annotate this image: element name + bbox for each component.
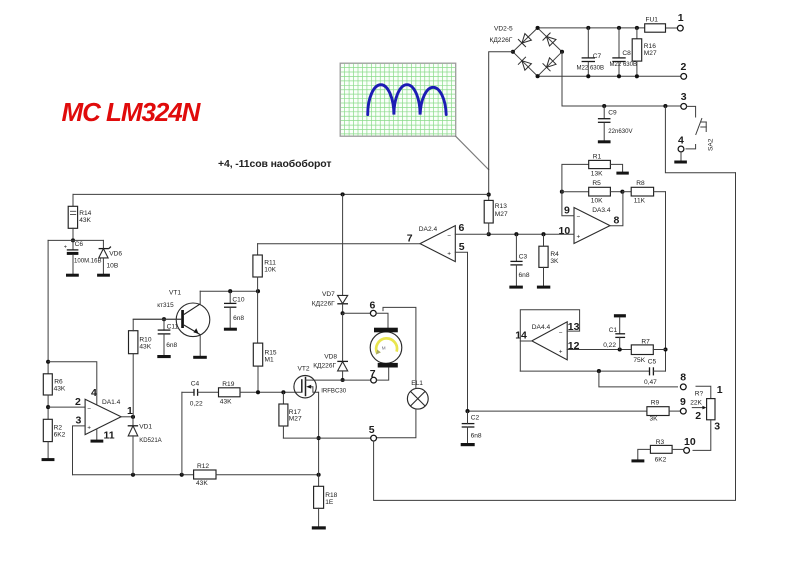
resistor R19 (219, 388, 241, 397)
zener diode VD6 (102, 240, 104, 248)
svg-text:3K: 3K (650, 416, 659, 423)
svg-text:КД226Г: КД226Г (490, 37, 513, 44)
wire pin 10 input rail (489, 233, 574, 235)
wire SA2 node to right side loop (665, 106, 735, 173)
capacitor C6 electrolytic (72, 240, 74, 250)
resistor R13 (488, 195, 490, 201)
ground at terminal 4 (680, 152, 682, 161)
svg-text:R18: R18 (325, 492, 337, 499)
resistor R4 (539, 246, 548, 267)
capacitor C3 (515, 234, 517, 261)
svg-text:M1: M1 (265, 356, 274, 363)
svg-text:6: 6 (459, 222, 465, 234)
svg-text:0,22: 0,22 (603, 342, 616, 349)
terminal 8 (680, 384, 686, 390)
terminal 2 (681, 74, 687, 80)
svg-text:43K: 43K (196, 480, 208, 487)
wire R8 to R7 column (665, 192, 667, 350)
svg-text:1: 1 (717, 384, 723, 396)
junction (663, 347, 667, 351)
svg-text:0,47: 0,47 (644, 379, 657, 386)
svg-text:R1: R1 (593, 153, 602, 160)
capacitor C10 (229, 291, 231, 303)
svg-text:EL1: EL1 (411, 380, 423, 387)
resistor R6 (43, 374, 52, 395)
svg-text:10K: 10K (264, 266, 276, 273)
svg-text:C1: C1 (609, 327, 618, 334)
terminal 10 (684, 448, 690, 454)
wire motor bottom to terminal 7 (377, 368, 389, 380)
resistor R17 (282, 392, 284, 404)
wire to terminal 5 (283, 437, 370, 439)
wire pin 8 feedback (610, 192, 623, 226)
resistor R12 (194, 470, 216, 479)
svg-text:R19: R19 (222, 381, 234, 388)
wire top AC rail (538, 27, 645, 29)
motor M (370, 328, 402, 368)
svg-text:4: 4 (678, 135, 684, 147)
wire pin 5 (455, 252, 467, 411)
svg-text:R10: R10 (139, 337, 151, 344)
svg-text:R11: R11 (264, 259, 276, 266)
svg-text:+: + (577, 234, 581, 241)
transistor VT2 mosfet (294, 366, 347, 398)
svg-text:10: 10 (559, 225, 571, 237)
junction (602, 104, 606, 108)
wire pin 9 (562, 192, 574, 216)
wire collector (199, 291, 201, 304)
svg-text:DA1.4: DA1.4 (102, 399, 121, 406)
svg-text:M22 630B: M22 630B (577, 65, 605, 71)
svg-text:3: 3 (714, 420, 720, 432)
svg-text:11K: 11K (634, 197, 646, 204)
svg-text:VT1: VT1 (169, 290, 181, 297)
svg-text:11: 11 (104, 430, 115, 442)
wire VD8 column (342, 313, 344, 361)
svg-text:22K: 22K (690, 399, 702, 406)
wire collector rail (200, 290, 258, 292)
svg-text:C3: C3 (519, 254, 528, 261)
svg-text:0,22: 0,22 (190, 400, 203, 407)
svg-text:VD8: VD8 (324, 353, 337, 360)
svg-text:VD7: VD7 (322, 291, 335, 298)
svg-text:MC LM324N: MC LM324N (62, 97, 202, 127)
resistor R8 (622, 191, 631, 193)
svg-text:R16: R16 (644, 43, 656, 50)
svg-text:10: 10 (684, 436, 696, 448)
svg-text:75K: 75K (633, 357, 645, 364)
svg-text:кт315: кт315 (157, 302, 174, 309)
svg-text:M27: M27 (644, 50, 657, 57)
resistor R15 (253, 343, 262, 366)
ground pin 11 (96, 429, 98, 440)
svg-text:13K: 13K (591, 170, 603, 177)
svg-text:+: + (87, 425, 91, 432)
wire bridge right down (562, 52, 681, 106)
capacitor C2 (462, 423, 475, 425)
svg-text:5: 5 (459, 241, 465, 253)
capacitor C8 (618, 28, 620, 57)
junction (620, 190, 624, 194)
svg-text:−: − (87, 406, 91, 413)
svg-text:R4: R4 (550, 251, 559, 258)
svg-text:2: 2 (681, 61, 687, 73)
svg-text:R?: R? (695, 390, 704, 397)
resistor R10 (129, 331, 138, 354)
terminal 5 (371, 435, 377, 441)
junction (341, 311, 345, 315)
svg-text:1: 1 (678, 12, 684, 24)
transistor VT1 (157, 290, 210, 337)
svg-text:6n8: 6n8 (233, 315, 244, 322)
wire R14 node (48, 239, 103, 241)
svg-text:C6: C6 (75, 241, 84, 248)
terminal 3 (681, 104, 687, 110)
svg-text:KD521A: KD521A (139, 438, 162, 444)
resistor R9 (647, 407, 669, 416)
svg-text:6K2: 6K2 (655, 456, 667, 463)
wire pin 6 (455, 233, 488, 235)
terminal 1 (677, 25, 683, 31)
terminal 4 (678, 146, 684, 152)
svg-text:R12: R12 (197, 463, 209, 470)
capacitor C7 (587, 28, 589, 57)
svg-text:−: − (447, 232, 451, 239)
svg-text:5: 5 (369, 424, 375, 436)
capacitor C1 (614, 314, 626, 317)
svg-text:КД226Г: КД226Г (313, 362, 336, 369)
svg-text:2: 2 (695, 410, 701, 422)
capacitor C9 (603, 106, 605, 118)
svg-text:M27: M27 (289, 416, 302, 423)
svg-text:R13: R13 (495, 203, 507, 210)
capacitor C11 (163, 319, 165, 330)
svg-text:R5: R5 (592, 180, 601, 187)
wire C2 node rail (468, 410, 647, 412)
svg-text:FU1: FU1 (646, 17, 659, 24)
wire pin 13 feedback loop (520, 310, 579, 371)
svg-text:100M.16B: 100M.16B (74, 259, 102, 265)
svg-text:DA3.4: DA3.4 (592, 207, 611, 214)
svg-text:9: 9 (680, 396, 686, 408)
bridge rectifier VD2-5 (490, 26, 565, 79)
svg-text:14: 14 (515, 330, 527, 342)
wire lower AC rail (538, 75, 681, 77)
fuse FU1 (645, 27, 678, 29)
pointer line from image (456, 136, 489, 169)
svg-text:R8: R8 (636, 180, 645, 187)
svg-text:C9: C9 (608, 110, 617, 117)
wire main top rail (73, 193, 489, 195)
wire inverting node (560, 190, 564, 194)
svg-text:+: + (64, 245, 67, 251)
svg-text:10B: 10B (107, 262, 119, 269)
resistor R5 (562, 191, 589, 193)
wire pin 1 output (121, 416, 133, 418)
svg-text:SA2: SA2 (708, 138, 715, 151)
svg-text:6n8: 6n8 (166, 342, 177, 349)
svg-text:6n8: 6n8 (471, 432, 482, 439)
svg-text:C2: C2 (471, 414, 480, 421)
svg-text:M: M (382, 345, 386, 350)
wire base (133, 318, 181, 320)
svg-text:3: 3 (76, 415, 82, 427)
svg-text:−: − (577, 214, 581, 221)
svg-text:+4, -11сов наобоборот: +4, -11сов наобоборот (218, 158, 331, 170)
diode VD1 (132, 417, 134, 426)
resistor R16 (636, 28, 638, 39)
svg-text:6: 6 (370, 300, 376, 312)
svg-text:R7: R7 (641, 338, 650, 345)
wire to terminal 8 (599, 371, 678, 387)
resistor R11 (257, 244, 259, 255)
svg-text:C10: C10 (232, 297, 244, 304)
svg-text:6K2: 6K2 (54, 431, 66, 438)
resistor R18 (314, 486, 324, 508)
svg-text:C4: C4 (191, 380, 200, 387)
lamp EL1 (407, 380, 428, 409)
potentiometer R? (696, 386, 711, 398)
wire C4 down (181, 392, 183, 475)
svg-text:VD1: VD1 (139, 424, 152, 431)
svg-text:VT2: VT2 (298, 366, 310, 373)
svg-text:C5: C5 (648, 358, 657, 365)
svg-text:3: 3 (681, 91, 687, 103)
svg-text:DA4.4: DA4.4 (532, 324, 551, 331)
resistor R1 (562, 164, 589, 191)
wire gate rail (182, 391, 194, 393)
wire pin 3 feedback (73, 426, 86, 475)
svg-text:−: − (559, 330, 563, 337)
svg-text:12: 12 (568, 340, 580, 352)
svg-text:6n8: 6n8 (519, 272, 530, 279)
svg-text:1: 1 (127, 405, 133, 417)
wire emitter to ground (199, 335, 201, 356)
svg-text:R3: R3 (656, 439, 665, 446)
svg-text:43K: 43K (220, 399, 232, 406)
wire to motor top (376, 313, 388, 327)
svg-text:7: 7 (407, 233, 413, 245)
wire pin 2 input (48, 406, 85, 408)
svg-text:КД226Г: КД226Г (312, 301, 335, 308)
op-amp DA3.4 (574, 208, 610, 244)
svg-text:M27: M27 (495, 211, 508, 218)
svg-text:+: + (447, 251, 451, 258)
op-amp DA1.4 (85, 399, 121, 434)
wire feedback rail (73, 474, 194, 476)
diode VD7 (338, 295, 348, 303)
terminal 7 (371, 377, 377, 383)
junction (46, 360, 50, 364)
wire lamp bottom (377, 409, 416, 438)
junction (46, 405, 50, 409)
svg-text:VD2-5: VD2-5 (494, 26, 513, 33)
switch SA2 (687, 106, 696, 117)
svg-text:R15: R15 (265, 349, 277, 356)
resistor R14 (72, 194, 74, 206)
svg-text:DA2.4: DA2.4 (419, 226, 438, 233)
wire pin 12 (567, 349, 631, 351)
svg-text:M22 630B: M22 630B (610, 62, 638, 68)
svg-text:8: 8 (614, 215, 620, 227)
svg-text:1E: 1E (325, 499, 334, 506)
svg-text:3K: 3K (550, 258, 559, 265)
svg-text:43K: 43K (54, 386, 66, 393)
wire loop bottom (520, 370, 649, 372)
svg-text:7: 7 (370, 368, 376, 380)
wire R10 column (132, 354, 134, 417)
svg-text:4: 4 (91, 387, 97, 399)
junction (341, 378, 345, 382)
ground below R2 (47, 442, 49, 459)
svg-text:43K: 43K (79, 217, 91, 224)
svg-text:9: 9 (564, 205, 570, 217)
capacitor C5 (649, 367, 651, 375)
junction (71, 238, 75, 242)
wire left column down (47, 240, 49, 373)
wire (47, 395, 49, 419)
wire source column (318, 392, 320, 486)
svg-text:C8: C8 (622, 50, 631, 57)
junction (586, 26, 590, 30)
resistor R3 (650, 445, 672, 453)
op-amp DA2.4 (420, 226, 455, 262)
wire pin 7 output (258, 243, 420, 245)
terminal 6 (343, 312, 371, 314)
svg-text:43K: 43K (139, 344, 151, 351)
wire bridge left to rail (489, 52, 513, 195)
oscillogram image (340, 63, 456, 136)
wire bottom loop (374, 173, 736, 501)
svg-text:VD6: VD6 (109, 250, 122, 257)
svg-text:R6: R6 (54, 378, 63, 385)
wire VD7 column (342, 194, 344, 295)
svg-text:IRFBC30: IRFBC30 (321, 388, 347, 394)
svg-text:+: + (559, 349, 563, 356)
wire pin 14 (520, 340, 532, 342)
svg-text:C7: C7 (593, 53, 602, 60)
wire pin 4 supply (48, 362, 97, 405)
svg-text:8: 8 (680, 372, 686, 384)
resistor R2 (43, 419, 52, 441)
capacitor C4 (193, 389, 195, 396)
svg-text:R9: R9 (651, 400, 660, 407)
resistor R7 (631, 345, 653, 355)
svg-text:22n630V: 22n630V (608, 129, 632, 135)
wire drain rail to terminal 7 (313, 379, 371, 381)
svg-text:10K: 10K (591, 197, 603, 204)
terminal 9 (680, 408, 686, 414)
diode VD8 (337, 360, 348, 362)
op-amp DA4.4 (532, 322, 567, 360)
svg-text:2: 2 (75, 396, 81, 408)
wire to lamp (383, 307, 416, 388)
